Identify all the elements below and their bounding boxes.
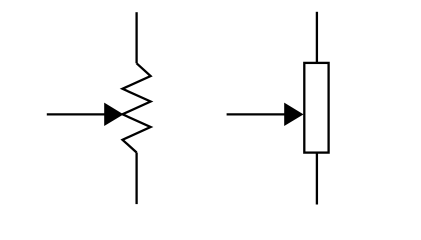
resistor body R2 (rectangle) [304,63,328,153]
wire: wiper lead of potentiometer R2 [227,113,290,115]
wire: wiper lead of potentiometer R1 [47,113,110,115]
resistor body R1 (zigzag) [123,63,151,152]
wire: top lead of potentiometer R1 (zigzag style) [135,12,137,63]
wire: bottom lead of potentiometer R1 [135,153,137,205]
wiper arrowhead of potentiometer R1 [104,103,123,126]
wire: bottom lead of potentiometer R2 [316,153,318,205]
wire: top lead of potentiometer R2 (box style) [316,12,318,63]
wiper arrowhead of potentiometer R2 [284,103,303,126]
